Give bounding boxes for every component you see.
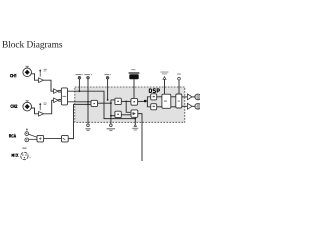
amp1: [39, 78, 44, 83]
wire EQ1 to R1: [157, 96, 162, 98]
wire E bottom to marker: [134, 117, 136, 124]
CH2 label: [11, 105, 17, 108]
wire amp2 to buffer T2: [43, 100, 53, 114]
out jack row1: [195, 94, 201, 100]
wire T1 to ADC pair: [58, 89, 61, 91]
buffer T1: [54, 89, 59, 94]
wire R1 to R2 bottom: [171, 106, 176, 108]
block D: [131, 98, 138, 105]
wire EQ2 to R1: [157, 106, 162, 108]
CH1 label: [10, 74, 16, 77]
wire RCA riser into block A: [68, 104, 91, 138]
wire W1 ADC out1 across top, down, along bottom: [68, 91, 136, 118]
wire B tap down to E: [126, 101, 131, 112]
block E mixer: [131, 110, 138, 117]
wire R1 to R2 top: [171, 96, 176, 98]
out amp row1: [187, 94, 192, 100]
RCA wires to sum: [29, 134, 37, 139]
ADC block: [61, 88, 67, 105]
wire junction to EQ2: [147, 101, 150, 107]
marker below E: [134, 124, 136, 126]
limit control: [177, 74, 181, 80]
wire block A out: [98, 102, 111, 104]
knob LEVEL: [104, 74, 111, 79]
wire block C out to E: [121, 114, 131, 116]
LED2 below box: [110, 124, 113, 127]
block S2: [62, 135, 69, 142]
junction dots: [79, 90, 137, 119]
wire USB drop to block D: [133, 79, 135, 98]
out jack row2: [195, 103, 201, 109]
wire T2 to ADC pair: [58, 99, 61, 101]
wire E out down dangle: [138, 114, 142, 161]
wire limit drop: [178, 80, 180, 94]
LED1 below box: [87, 124, 90, 127]
wire CH2 jack to amp2: [32, 108, 39, 114]
MIX XLR jack: [21, 148, 31, 160]
wire knob1 drop: [78, 79, 80, 91]
DSP label: [149, 89, 159, 93]
wire knob3 drop: [107, 79, 109, 100]
knob SIGNAL 1: [76, 74, 84, 79]
wire knob2 drop to LED1: [87, 79, 89, 124]
wire block D out to junction: [138, 100, 145, 102]
master level knob: [161, 72, 169, 80]
EQ2 block: [151, 104, 157, 110]
wire out amp1 to jack: [192, 96, 195, 98]
RCA jack R: [26, 129, 28, 131]
svg-text:Block Diagrams: Block Diagrams: [2, 41, 63, 51]
DSP shaded dashed box: [75, 87, 185, 122]
block C: [115, 111, 121, 117]
sum block S1: [37, 135, 44, 142]
RCA jack L: [25, 138, 29, 142]
buffer T2: [54, 98, 59, 103]
wire W2 ADC out2 into block A: [68, 101, 92, 103]
block B: [115, 98, 121, 104]
wire out amp2 to jack: [192, 105, 195, 107]
wire junction to EQ1: [146, 97, 150, 101]
CH2 jack: [23, 100, 32, 111]
wire tap vertical to LED2: [110, 100, 112, 124]
limiter block R1: [162, 94, 171, 108]
amp2 gain marks: [39, 103, 41, 110]
wire S1 to S2: [44, 138, 62, 140]
CH1 jack: [23, 66, 32, 77]
wire amp1 to buffer T1: [43, 80, 53, 91]
amp2: [39, 112, 44, 117]
wire into block C: [111, 115, 115, 117]
wire R2 to out amp row1: [182, 96, 188, 98]
amp1 gain marks: [39, 70, 41, 77]
RCA label: [9, 135, 15, 138]
knob SIGNAL 2: [84, 74, 92, 79]
DAC block R2: [176, 94, 182, 108]
wire block B out to D: [121, 100, 131, 102]
black junction square: [144, 100, 146, 102]
block A: [91, 100, 98, 106]
wire CH1 jack to amp1: [32, 74, 39, 80]
wire master knob drop: [164, 79, 166, 94]
EQ1 block: [151, 94, 157, 100]
wire R2 to out amp row2: [182, 105, 188, 107]
wire into block B: [111, 99, 115, 101]
USB connector: [129, 69, 140, 79]
out amp row2: [187, 103, 192, 109]
MIX label: [12, 154, 18, 157]
